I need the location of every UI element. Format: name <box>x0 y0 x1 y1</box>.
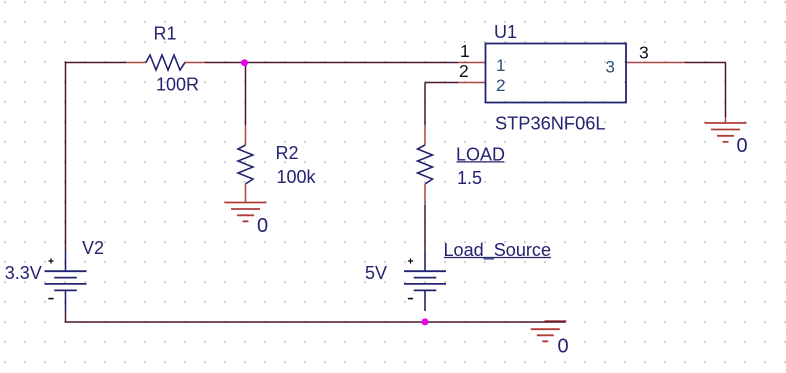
svg-text:STP36NF06L: STP36NF06L <box>495 114 606 134</box>
svg-text:2: 2 <box>496 76 505 95</box>
svg-text:R2: R2 <box>276 143 299 163</box>
svg-text:1: 1 <box>460 41 470 61</box>
svg-text:3.3V: 3.3V <box>5 263 42 283</box>
svg-text:5V: 5V <box>365 263 387 283</box>
svg-text:0: 0 <box>737 135 748 157</box>
svg-text:2: 2 <box>459 61 469 81</box>
svg-text:V2: V2 <box>82 238 104 258</box>
svg-text:100k: 100k <box>277 167 317 187</box>
svg-text:0: 0 <box>558 336 569 358</box>
svg-text:100R: 100R <box>156 75 199 95</box>
svg-text:1.5: 1.5 <box>457 168 482 188</box>
svg-text:3: 3 <box>639 43 649 63</box>
svg-text:1: 1 <box>496 56 505 75</box>
svg-text:R1: R1 <box>154 24 177 44</box>
svg-text:3: 3 <box>606 57 615 76</box>
svg-text:0: 0 <box>257 215 268 237</box>
svg-text:U1: U1 <box>494 22 517 42</box>
